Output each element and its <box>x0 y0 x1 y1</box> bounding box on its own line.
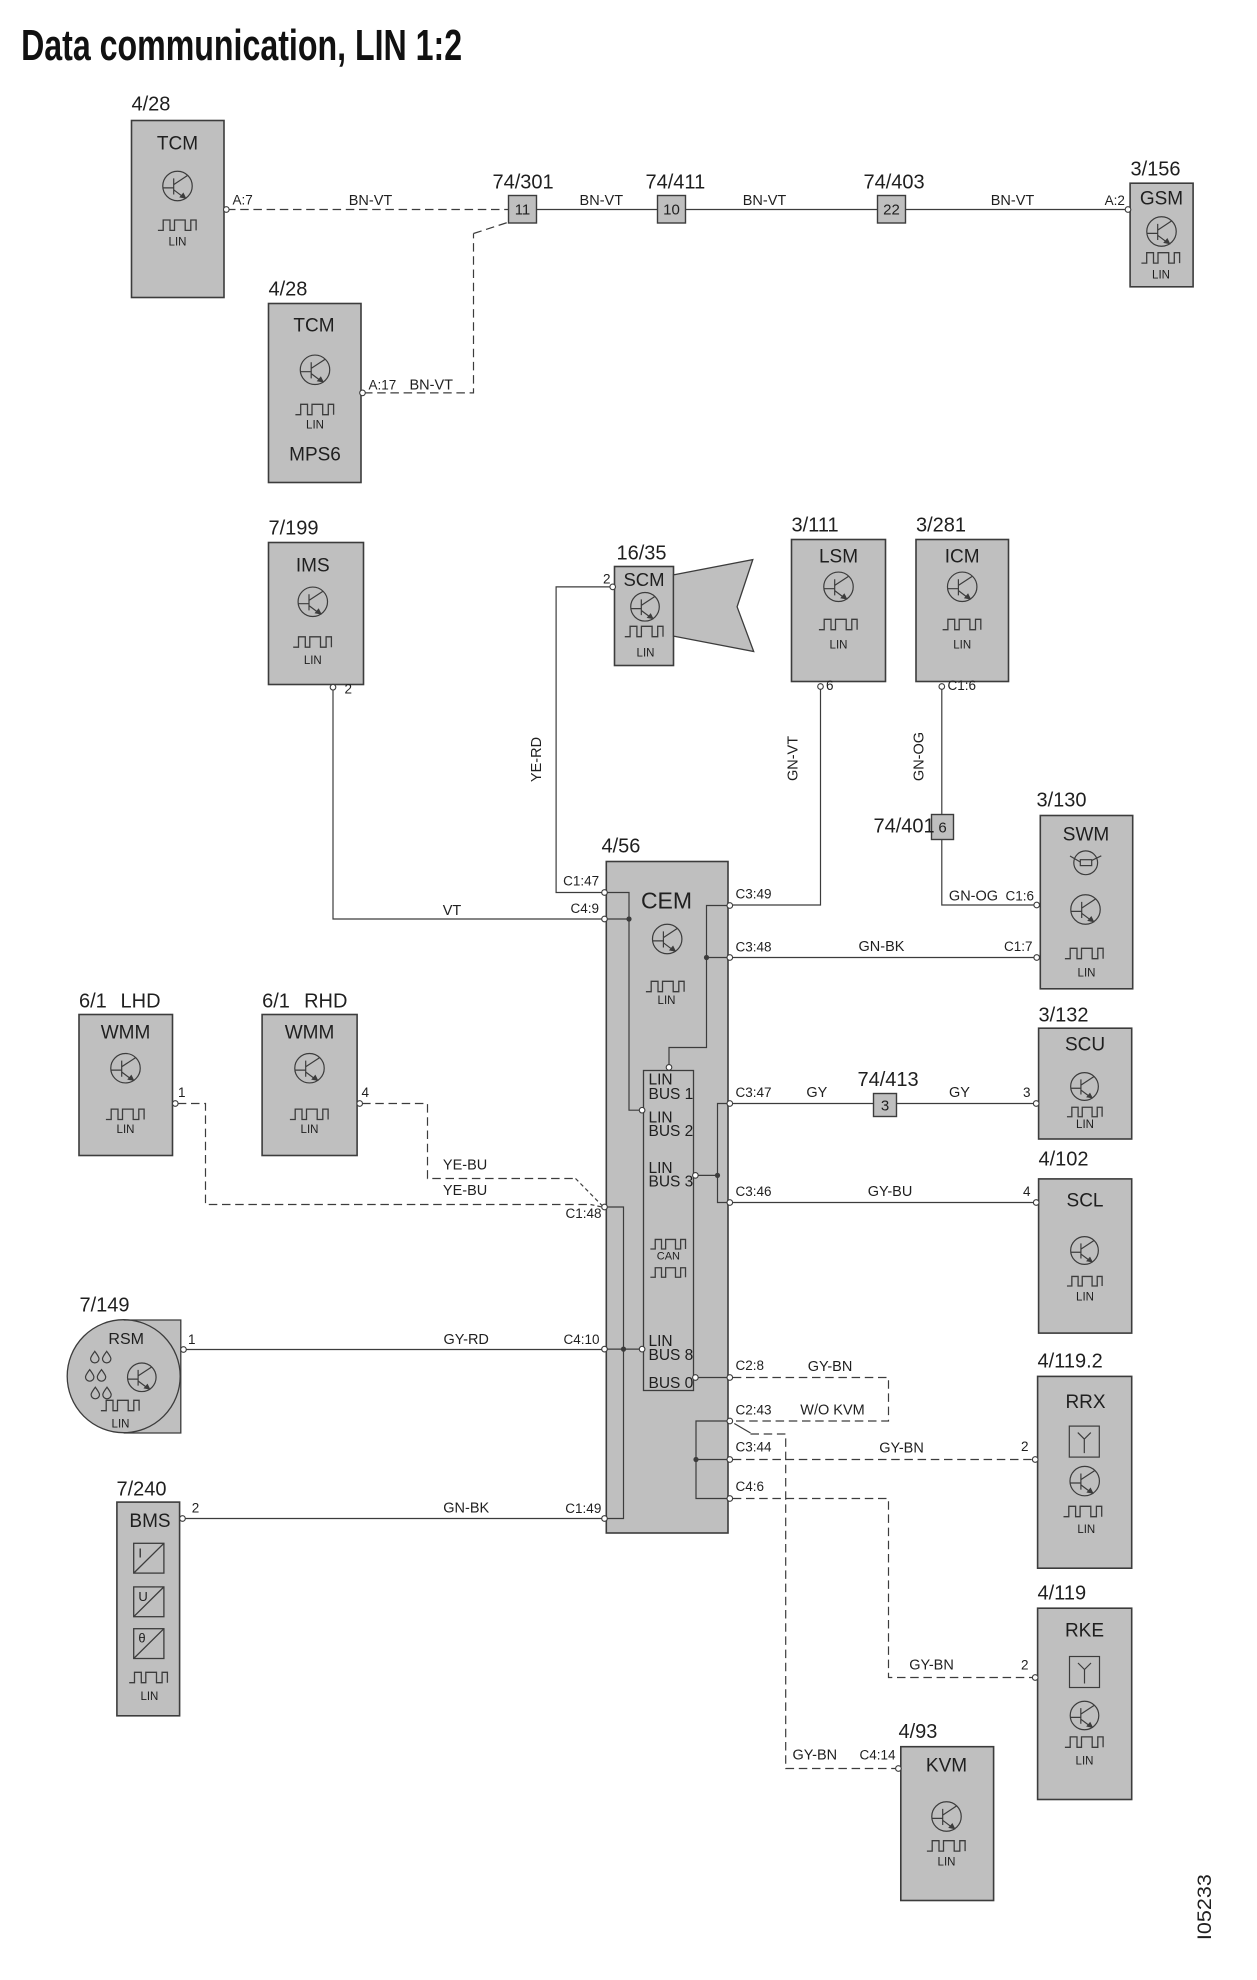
svg-text:GN-BK: GN-BK <box>859 939 905 955</box>
svg-text:6: 6 <box>826 678 834 693</box>
svg-text:2: 2 <box>192 1501 200 1516</box>
svg-text:2: 2 <box>603 572 611 587</box>
svg-text:LHD: LHD <box>121 991 161 1013</box>
svg-text:3/156: 3/156 <box>1131 159 1181 181</box>
svg-text:C4:9: C4:9 <box>571 901 600 916</box>
svg-text:BUS 8: BUS 8 <box>649 1347 694 1364</box>
svg-text:LSM: LSM <box>819 547 858 568</box>
svg-text:C3:44: C3:44 <box>736 1440 773 1455</box>
svg-text:BN-VT: BN-VT <box>743 193 787 209</box>
svg-text:BUS 1: BUS 1 <box>649 1086 694 1103</box>
svg-text:7/199: 7/199 <box>269 518 319 540</box>
svg-text:SWM: SWM <box>1063 825 1109 846</box>
svg-text:LIN: LIN <box>1077 1524 1095 1536</box>
svg-text:LIN: LIN <box>637 647 655 659</box>
svg-text:BN-VT: BN-VT <box>580 193 624 209</box>
svg-text:RRX: RRX <box>1065 1392 1105 1413</box>
svg-text:BUS 2: BUS 2 <box>649 1123 694 1140</box>
svg-text:SCL: SCL <box>1067 1191 1104 1212</box>
svg-text:U: U <box>138 1589 147 1604</box>
svg-text:GN-OG: GN-OG <box>912 732 928 781</box>
svg-text:GN-VT: GN-VT <box>786 736 802 781</box>
svg-text:7/240: 7/240 <box>117 1479 167 1501</box>
svg-text:6/1: 6/1 <box>79 991 107 1013</box>
svg-text:C3:49: C3:49 <box>736 887 772 902</box>
svg-text:YE-RD: YE-RD <box>529 737 545 782</box>
svg-text:3: 3 <box>881 1098 889 1115</box>
svg-text:LIN: LIN <box>1076 1119 1094 1131</box>
svg-text:Data communication, LIN 1:2: Data communication, LIN 1:2 <box>21 21 462 70</box>
svg-text:LIN: LIN <box>304 655 322 667</box>
svg-text:RSM: RSM <box>108 1331 144 1348</box>
svg-text:LIN: LIN <box>1076 1292 1094 1304</box>
svg-text:W/O KVM: W/O KVM <box>800 1403 864 1419</box>
svg-text:22: 22 <box>883 202 900 219</box>
svg-text:74/413: 74/413 <box>858 1069 919 1091</box>
svg-text:4/28: 4/28 <box>269 279 308 301</box>
svg-text:LIN: LIN <box>830 640 848 652</box>
svg-text:3/281: 3/281 <box>916 515 966 537</box>
svg-text:C1:47: C1:47 <box>563 873 599 888</box>
svg-text:4/102: 4/102 <box>1039 1149 1089 1171</box>
svg-text:GY-BN: GY-BN <box>909 1658 954 1674</box>
svg-text:11: 11 <box>515 202 531 219</box>
svg-text:4/93: 4/93 <box>899 1721 938 1743</box>
svg-text:BN-VT: BN-VT <box>991 193 1035 209</box>
svg-text:LIN: LIN <box>938 1857 956 1869</box>
svg-text:1: 1 <box>178 1085 186 1100</box>
svg-text:WMM: WMM <box>101 1023 151 1044</box>
svg-text:6: 6 <box>938 820 946 837</box>
svg-text:C3:47: C3:47 <box>736 1085 772 1100</box>
svg-text:6/1: 6/1 <box>262 991 290 1013</box>
svg-text:YE-BU: YE-BU <box>443 1158 487 1174</box>
svg-text:GY-RD: GY-RD <box>444 1332 489 1348</box>
svg-text:GY: GY <box>806 1085 827 1101</box>
svg-text:GY-BN: GY-BN <box>808 1359 853 1375</box>
svg-text:SCM: SCM <box>623 569 664 590</box>
svg-text:C1:6: C1:6 <box>1006 889 1035 904</box>
svg-text:SCU: SCU <box>1065 1035 1105 1056</box>
svg-text:I: I <box>138 1545 142 1560</box>
svg-text:GSM: GSM <box>1140 189 1183 210</box>
svg-text:BUS 0: BUS 0 <box>649 1375 694 1392</box>
svg-text:74/401: 74/401 <box>874 816 935 838</box>
svg-text:GY-BN: GY-BN <box>879 1441 924 1457</box>
svg-text:BN-VT: BN-VT <box>349 193 393 209</box>
svg-text:MPS6: MPS6 <box>289 445 341 466</box>
svg-text:2: 2 <box>1021 1439 1029 1454</box>
svg-text:GY: GY <box>949 1085 970 1101</box>
svg-text:CEM: CEM <box>641 888 692 914</box>
svg-text:7/149: 7/149 <box>80 1295 130 1317</box>
svg-text:4/28: 4/28 <box>132 94 171 116</box>
svg-text:4: 4 <box>362 1085 370 1100</box>
svg-text:2: 2 <box>1021 1658 1029 1673</box>
svg-text:C4:6: C4:6 <box>736 1479 765 1494</box>
svg-text:LIN: LIN <box>1078 968 1096 980</box>
svg-text:LIN: LIN <box>112 1419 130 1431</box>
svg-text:C2:8: C2:8 <box>736 1358 765 1373</box>
svg-text:C3:48: C3:48 <box>736 939 772 954</box>
svg-text:C4:14: C4:14 <box>860 1748 897 1763</box>
svg-text:C4:10: C4:10 <box>564 1332 600 1347</box>
svg-text:3/111: 3/111 <box>792 515 839 537</box>
svg-text:LIN: LIN <box>1076 1756 1094 1768</box>
svg-text:KVM: KVM <box>926 1756 967 1777</box>
svg-text:C1:6: C1:6 <box>948 678 977 693</box>
svg-text:TCM: TCM <box>293 316 334 337</box>
svg-text:LIN: LIN <box>1152 270 1170 282</box>
svg-text:LIN: LIN <box>169 237 187 249</box>
svg-text:ICM: ICM <box>945 547 980 568</box>
svg-text:LIN: LIN <box>117 1124 135 1136</box>
svg-text:LIN: LIN <box>953 640 971 652</box>
svg-text:LIN: LIN <box>306 420 324 432</box>
svg-text:1: 1 <box>188 1332 196 1347</box>
svg-text:θ: θ <box>138 1631 145 1646</box>
svg-text:A:2: A:2 <box>1105 193 1125 208</box>
svg-text:C1:7: C1:7 <box>1004 939 1033 954</box>
svg-text:TCM: TCM <box>157 134 198 155</box>
svg-text:74/403: 74/403 <box>864 172 925 194</box>
svg-text:GY-BN: GY-BN <box>793 1748 838 1764</box>
svg-text:IMS: IMS <box>296 556 330 577</box>
svg-text:WMM: WMM <box>285 1023 335 1044</box>
svg-text:3/132: 3/132 <box>1039 1005 1089 1027</box>
svg-text:VT: VT <box>443 903 462 919</box>
svg-text:C2:43: C2:43 <box>736 1403 772 1418</box>
svg-text:C1:48: C1:48 <box>566 1206 602 1221</box>
svg-text:BMS: BMS <box>129 1511 170 1532</box>
svg-text:LIN: LIN <box>301 1124 319 1136</box>
svg-text:RKE: RKE <box>1065 1621 1104 1642</box>
svg-text:A:7: A:7 <box>233 193 253 208</box>
svg-text:RHD: RHD <box>304 991 347 1013</box>
svg-text:I05233: I05233 <box>1194 1874 1216 1940</box>
svg-text:4/119: 4/119 <box>1038 1583 1087 1605</box>
svg-text:74/411: 74/411 <box>646 172 706 194</box>
svg-text:A:17: A:17 <box>369 377 397 392</box>
svg-text:74/301: 74/301 <box>493 172 554 194</box>
svg-text:BUS 3: BUS 3 <box>649 1173 694 1190</box>
svg-text:LIN: LIN <box>658 995 676 1007</box>
svg-text:GN-BK: GN-BK <box>443 1501 489 1517</box>
svg-text:10: 10 <box>663 202 680 219</box>
svg-text:GN-OG: GN-OG <box>949 889 998 905</box>
svg-text:BN-VT: BN-VT <box>410 377 454 393</box>
svg-text:C3:46: C3:46 <box>736 1184 772 1199</box>
svg-text:4/56: 4/56 <box>602 836 641 858</box>
svg-text:3/130: 3/130 <box>1037 790 1087 812</box>
svg-text:GY-BU: GY-BU <box>868 1184 913 1200</box>
svg-text:4: 4 <box>1023 1184 1031 1199</box>
svg-text:LIN: LIN <box>140 1691 158 1703</box>
svg-text:2: 2 <box>345 682 353 697</box>
svg-text:16/35: 16/35 <box>617 543 667 565</box>
svg-text:YE-BU: YE-BU <box>443 1183 487 1199</box>
svg-text:3: 3 <box>1023 1085 1031 1100</box>
svg-text:C1:49: C1:49 <box>565 1501 601 1516</box>
svg-text:CAN: CAN <box>657 1251 680 1263</box>
svg-text:4/119.2: 4/119.2 <box>1038 1351 1103 1373</box>
